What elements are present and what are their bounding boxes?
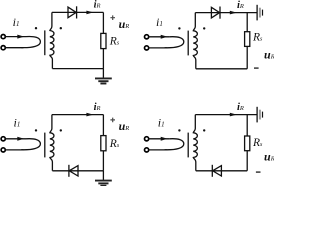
wire upper input (5, 36, 26, 38)
wire top output (52, 114, 104, 116)
svg-text:i1: i1 (13, 15, 20, 29)
terminal P4b (lower input) (145, 148, 149, 152)
primary winding single-turn loop of T1 (21, 36, 40, 47)
polarity dot primary side (35, 27, 37, 29)
arrow iR current direction (86, 11, 93, 15)
resistor R2 body (245, 32, 250, 47)
wire right branch upper (102, 115, 104, 136)
arrow iR current direction (230, 11, 237, 15)
diode D3 cathode bar (68, 165, 70, 177)
svg-text:uR: uR (119, 119, 130, 133)
secondary winding of T2 (4 turns) (193, 13, 197, 69)
svg-text:Rs: Rs (109, 138, 120, 150)
arrow i1 current direction (17, 35, 24, 39)
wire upper input (5, 138, 26, 140)
ground bar long (95, 77, 112, 79)
diode D4 cathode bar (211, 165, 213, 177)
ground bar long (95, 180, 112, 182)
svg-text:iR: iR (237, 0, 244, 11)
ground stem (102, 69, 104, 79)
ground bar middle (sideways) (259, 110, 261, 120)
polarity dot secondary side (203, 27, 205, 29)
wire right branch lower (102, 151, 104, 171)
ground stem (102, 171, 104, 181)
terminal P2b (lower input) (145, 46, 149, 50)
wire top output (195, 114, 256, 116)
diode D4 (series, bottom branch, pointing left) (213, 166, 222, 176)
primary winding single-turn loop of T4 (165, 139, 184, 150)
ground bar middle (98, 182, 108, 184)
svg-text:uR: uR (264, 149, 274, 163)
terminal P1b (lower input) (1, 46, 5, 50)
svg-text:iR: iR (237, 102, 244, 113)
polarity dot secondary side (203, 129, 205, 131)
circuit 3: bottom-left, diode in bottom branch, grounded at bottom (1, 102, 129, 186)
arrow i1 current direction (161, 35, 168, 39)
primary winding single-turn loop of T2 (165, 37, 184, 48)
circuit 4: bottom-right, diode in bottom branch, grounded at top (145, 102, 275, 177)
label + polarity (110, 15, 115, 20)
wire upper input (149, 36, 170, 38)
wire bottom return (196, 68, 247, 70)
svg-text:uR: uR (264, 47, 274, 61)
wire right branch lower (102, 49, 104, 69)
diode D2 cathode bar (219, 7, 221, 19)
transformer T1 core (44, 30, 46, 55)
terminal P1a (upper input) (1, 35, 5, 39)
wire right branch upper (102, 12, 104, 33)
polarity dot primary side (35, 129, 37, 131)
wire upper input (149, 138, 170, 140)
ground bar long (sideways) (256, 107, 258, 123)
resistor R1 body (101, 33, 106, 48)
wire right branch upper (246, 13, 248, 32)
polarity dot secondary side (60, 129, 62, 131)
svg-text:i1: i1 (14, 115, 21, 129)
ground bar short (sideways) (262, 10, 264, 16)
svg-text:iR: iR (94, 0, 101, 11)
ground bar middle (sideways) (259, 8, 261, 18)
diode D1 (series, top branch) (68, 7, 76, 18)
diode D3 (series, bottom branch, pointing left) (69, 166, 78, 176)
arrow iR current direction (230, 113, 237, 117)
polarity dot primary side (178, 129, 180, 131)
ground bar short (100, 185, 106, 187)
wire lower input (5, 149, 23, 151)
arrow i1 current direction (161, 137, 168, 141)
secondary winding of T3 (4 turns) (50, 115, 54, 171)
wire bottom return (52, 170, 103, 172)
svg-text:Rs: Rs (109, 36, 120, 48)
svg-text:Rs: Rs (252, 137, 263, 149)
svg-text:iR: iR (94, 102, 101, 113)
arrow iR current direction (86, 113, 93, 117)
ground bar short (100, 83, 106, 85)
svg-text:i1: i1 (158, 116, 165, 130)
wire right branch lower (246, 151, 248, 171)
diode D2 (series, top branch) (211, 7, 219, 18)
wire lower input (5, 47, 23, 49)
svg-text:i1: i1 (156, 15, 163, 29)
transformer T4 core (187, 133, 189, 158)
wire right branch lower (246, 46, 248, 68)
wire top output (52, 11, 104, 13)
polarity dot primary side (178, 27, 180, 29)
wire top output (195, 12, 256, 14)
terminal P2a (upper input) (145, 35, 149, 39)
wire bottom return (196, 170, 247, 172)
ground bar middle (98, 80, 108, 82)
terminal P4a (upper input) (145, 137, 149, 141)
wire lower input (149, 149, 167, 151)
terminal P3a (upper input) (1, 137, 5, 141)
svg-text:uR: uR (119, 17, 130, 31)
secondary winding of T1 (4 turns) (50, 12, 54, 68)
wire bottom return (52, 68, 103, 70)
resistor R4 body (245, 136, 250, 151)
arrow i1 current direction (17, 137, 24, 141)
circuit 2: top-right, diode in top branch, grounded at top (145, 0, 275, 69)
terminal P3b (lower input) (1, 148, 5, 152)
label - polarity (256, 171, 261, 173)
label + polarity (110, 118, 115, 123)
svg-text:Rs: Rs (252, 31, 263, 43)
wire right branch upper (246, 115, 248, 136)
transformer T2 core (187, 31, 189, 56)
transformer T3 core (44, 133, 46, 158)
primary winding single-turn loop of T3 (21, 139, 40, 150)
circuit 1: top-left, diode in top branch, grounded at bottom (1, 0, 129, 84)
resistor R3 body (101, 136, 106, 151)
diode D1 cathode bar (76, 6, 78, 18)
ground bar long (sideways) (256, 5, 258, 21)
wire lower input (149, 47, 167, 49)
polarity dot secondary side (60, 27, 62, 29)
ground bar short (sideways) (262, 112, 264, 118)
secondary winding of T4 (4 turns) (193, 115, 197, 171)
label - polarity (254, 67, 259, 69)
